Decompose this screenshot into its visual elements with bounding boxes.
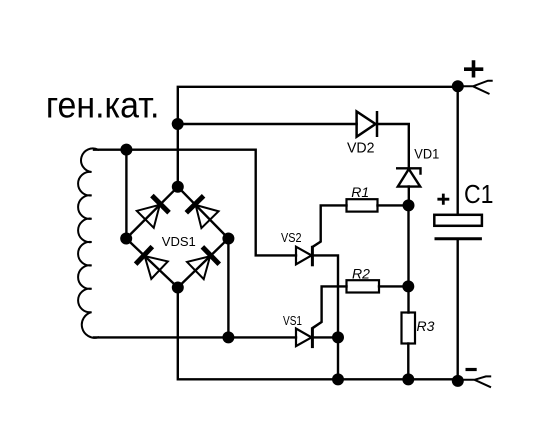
svg-text:VS2: VS2	[281, 230, 302, 245]
svg-text:R2: R2	[352, 265, 370, 281]
svg-text:VDS1: VDS1	[162, 234, 196, 249]
svg-text:VS1: VS1	[283, 313, 302, 328]
svg-text:VD2: VD2	[347, 139, 375, 156]
svg-text:VD1: VD1	[414, 146, 439, 161]
svg-text:ген.кат.: ген.кат.	[46, 85, 159, 126]
svg-text:C1: C1	[464, 181, 494, 209]
svg-text:R1: R1	[351, 184, 369, 200]
svg-text:R3: R3	[417, 318, 435, 334]
